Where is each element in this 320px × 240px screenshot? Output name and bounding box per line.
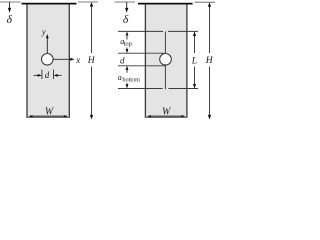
svg-text:d: d <box>120 55 125 65</box>
svg-text:bottom: bottom <box>122 76 140 83</box>
svg-text:y: y <box>41 27 46 37</box>
svg-text:δ: δ <box>123 14 129 26</box>
svg-text:d: d <box>45 70 50 80</box>
svg-text:δ: δ <box>7 14 13 26</box>
svg-text:top: top <box>124 41 132 48</box>
svg-text:L: L <box>191 57 197 67</box>
svg-text:H: H <box>205 56 214 66</box>
svg-text:a: a <box>118 73 122 82</box>
svg-text:x: x <box>75 55 80 65</box>
svg-text:H: H <box>87 56 96 66</box>
